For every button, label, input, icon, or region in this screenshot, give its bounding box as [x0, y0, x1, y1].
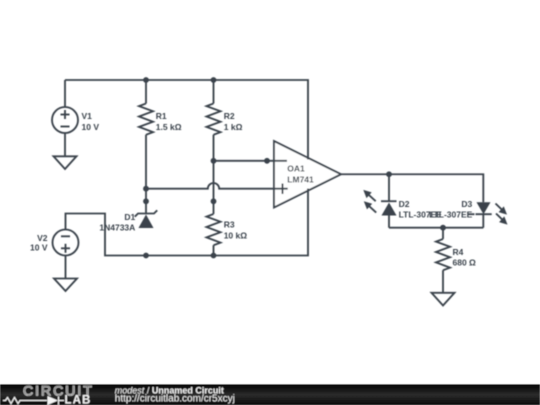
svg-text:10 V: 10 V: [82, 122, 100, 132]
svg-text:R1: R1: [156, 111, 167, 121]
svg-text:LTL-307EE: LTL-307EE: [429, 210, 473, 220]
svg-text:V2: V2: [37, 233, 48, 243]
svg-text:1N4733A: 1N4733A: [99, 223, 135, 233]
svg-text:D2: D2: [399, 199, 410, 209]
svg-text:10 V: 10 V: [30, 243, 48, 253]
svg-text:V1: V1: [82, 111, 93, 121]
svg-text:D1: D1: [124, 212, 135, 222]
svg-text:10 kΩ: 10 kΩ: [224, 230, 248, 240]
svg-text:680 Ω: 680 Ω: [453, 258, 477, 268]
svg-text:R3: R3: [224, 220, 235, 230]
svg-text:http://circuitlab.com/cr5xcyj: http://circuitlab.com/cr5xcyj: [115, 394, 235, 405]
svg-text:LM741: LM741: [287, 174, 314, 184]
svg-text:LAB: LAB: [65, 395, 92, 405]
svg-text:1.5 kΩ: 1.5 kΩ: [156, 122, 182, 132]
svg-text:R2: R2: [224, 111, 235, 121]
svg-text:OA1: OA1: [287, 164, 305, 174]
svg-text:1 kΩ: 1 kΩ: [224, 122, 243, 132]
svg-text:R4: R4: [453, 247, 464, 257]
svg-text:D3: D3: [461, 199, 472, 209]
